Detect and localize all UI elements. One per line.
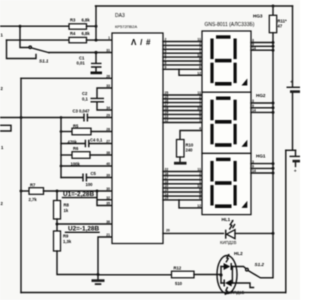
svg-text:240: 240	[186, 148, 194, 153]
svg-text:510: 510	[175, 281, 183, 286]
wire pin31 row	[49, 52, 112, 54]
resistor R7	[21, 183, 112, 203]
capacitor C5	[61, 171, 112, 187]
display HG3	[202, 31, 251, 92]
resistor R9	[54, 224, 99, 275]
svg-text:R8: R8	[64, 203, 70, 208]
wire input top rail left	[0, 25, 69, 27]
wire HG2 common pins	[251, 103, 273, 112]
pin numbers HG3 display side	[197, 38, 201, 76]
node bus2 R5	[60, 130, 63, 133]
wire pin20 row	[163, 232, 224, 234]
node R4 pin1	[95, 39, 98, 42]
svg-text:HG1: HG1	[256, 154, 266, 159]
terminal stub left edge	[0, 125, 11, 131]
op-amp U1 ADC chip DA3	[112, 13, 163, 244]
svg-text:3: 3	[252, 160, 254, 164]
node R3 top	[95, 25, 98, 28]
node HG3 b	[272, 45, 275, 48]
wire pin21 down	[98, 237, 112, 275]
node left bus top	[19, 25, 22, 28]
svg-text:R7: R7	[30, 183, 36, 188]
wire HG3 dp	[179, 69, 202, 75]
svg-text:12: 12	[197, 204, 201, 208]
svg-text:47: 47	[278, 24, 283, 29]
svg-text:HG3: HG3	[253, 14, 263, 19]
seven segment digit HG3	[210, 35, 247, 85]
capacitor C1	[77, 53, 102, 72]
svg-text:1k: 1k	[64, 208, 69, 213]
node HG1 c	[272, 172, 275, 175]
svg-text:30: 30	[106, 187, 110, 191]
seven segment digit HG2	[210, 97, 247, 147]
svg-text:14: 14	[252, 169, 256, 173]
resistor R6	[61, 146, 112, 167]
svg-text:6,8k: 6,8k	[82, 31, 91, 36]
svg-text:5: 5	[199, 61, 201, 65]
wire battery right vertical	[292, 6, 294, 87]
svg-text:38: 38	[106, 151, 110, 155]
capacitor C4	[61, 138, 112, 148]
svg-text:КИПД2В: КИПД2В	[220, 240, 237, 245]
svg-text:6: 6	[199, 196, 201, 200]
wire return left vertical	[285, 150, 287, 292]
wire HL2 top to switch	[232, 267, 245, 269]
svg-text:32: 32	[106, 196, 110, 200]
svg-text:+: +	[290, 79, 293, 85]
svg-text:21: 21	[106, 233, 110, 237]
svg-text:31: 31	[106, 48, 110, 52]
switch S1.1	[29, 46, 49, 63]
node R8 R9	[56, 223, 59, 226]
node HG1 a	[272, 162, 275, 165]
switch S1.2	[246, 262, 265, 278]
svg-text:33: 33	[106, 84, 110, 88]
wire left bus	[20, 78, 22, 292]
svg-text:+: +	[294, 169, 297, 175]
svg-text:6: 6	[199, 66, 201, 70]
svg-text:R6: R6	[73, 146, 79, 151]
seven segment digit HG1	[210, 158, 247, 208]
wire R12 to HL2	[98, 274, 172, 276]
node HG3 c	[272, 49, 275, 52]
svg-text:9: 9	[252, 165, 254, 169]
pin numbers HG3 left	[165, 38, 167, 70]
svg-text:1: 1	[199, 119, 201, 123]
resistor R12	[172, 266, 222, 287]
svg-text:34: 34	[106, 106, 110, 110]
resistor R11	[269, 6, 287, 33]
wire segment bus HG1	[163, 172, 202, 200]
svg-text:R5: R5	[73, 124, 79, 129]
svg-text:9: 9	[252, 104, 254, 108]
display HG2	[202, 92, 251, 153]
resistor R4	[69, 31, 90, 43]
pin numbers HG2 display side	[197, 91, 201, 131]
node R8 top	[56, 190, 59, 193]
node C1 top	[94, 51, 97, 54]
node HG2 b	[272, 106, 275, 109]
battery GB1	[287, 79, 301, 150]
wire segment bus HG3	[163, 42, 202, 70]
resistor R8	[54, 191, 70, 224]
node bus input2	[20, 116, 23, 119]
wire pin26 row	[21, 77, 112, 79]
svg-text:8: 8	[165, 61, 167, 65]
wire S1.1 pole from bus	[20, 26, 29, 47]
svg-text:12: 12	[197, 72, 201, 76]
node bus2 top	[60, 116, 63, 119]
svg-text:27: 27	[106, 139, 110, 143]
node HG2 a	[272, 102, 275, 105]
svg-text:0,1: 0,1	[82, 97, 88, 102]
wire HL2 bottom contact	[232, 283, 253, 288]
wire battery link	[286, 149, 296, 151]
wire pin32 pin35 branch	[97, 191, 112, 206]
svg-text:20: 20	[166, 229, 170, 233]
svg-text:C5: C5	[91, 171, 97, 176]
svg-text:C4 0,1: C4 0,1	[90, 138, 103, 143]
svg-text:12: 12	[165, 119, 169, 123]
svg-text:40: 40	[106, 162, 110, 166]
svg-text:HL2: HL2	[234, 251, 243, 256]
svg-text:R9: R9	[63, 234, 69, 239]
node HG2 c	[272, 111, 275, 114]
wire analog bus	[60, 118, 62, 178]
svg-text:2,7k: 2,7k	[29, 197, 38, 202]
wire R3R4 vertical	[95, 6, 97, 40]
pin numbers HG1 display side	[197, 168, 201, 208]
wire HG1 common pins	[251, 164, 273, 173]
node HL1 bus	[272, 232, 275, 235]
svg-text:35: 35	[106, 202, 110, 206]
svg-text:Λ/#: Λ/#	[131, 38, 151, 47]
wire pin36 U2 row	[57, 223, 112, 225]
svg-text:HG2: HG2	[256, 93, 266, 98]
svg-text:C3 0,047: C3 0,047	[73, 109, 91, 114]
node ground	[97, 273, 100, 276]
pin numbers HG2 left	[165, 91, 169, 123]
resistor R5	[61, 124, 112, 145]
wire V+ top rail	[96, 5, 293, 7]
capacitor C2 loop	[82, 88, 112, 110]
svg-text:26: 26	[106, 75, 110, 79]
wire R4 to pin1	[87, 39, 113, 41]
svg-text:R12: R12	[174, 266, 182, 271]
node bus top	[272, 5, 275, 8]
wire HG1 dp	[179, 200, 202, 208]
pin numbers HG1 left	[165, 168, 169, 200]
svg-text:1,3k: 1,3k	[63, 239, 72, 244]
wire input row 2	[0, 117, 83, 119]
svg-text:1: 1	[108, 36, 110, 40]
svg-text:14: 14	[252, 109, 256, 113]
svg-text:14: 14	[252, 46, 256, 50]
svg-text:36: 36	[106, 220, 110, 224]
node pin32 branch	[96, 190, 99, 193]
LED HL1	[220, 217, 273, 245]
svg-text:39: 39	[106, 173, 110, 177]
wire R3 to node	[87, 25, 97, 27]
node HG1 b	[272, 167, 275, 170]
wire HG3 common pins	[251, 43, 273, 51]
resistor R3	[69, 18, 90, 30]
svg-text:3: 3	[252, 99, 254, 103]
svg-text:GNS-8011 (АЛС333Б): GNS-8011 (АЛС333Б)	[205, 22, 255, 28]
svg-text:100: 100	[86, 182, 94, 187]
LED HL2	[217, 251, 245, 295]
svg-text:15: 15	[165, 196, 169, 200]
svg-text:КР572ПВ2А: КР572ПВ2А	[115, 24, 137, 29]
wire anode bus	[261, 33, 273, 278]
wire R4 row	[7, 39, 70, 41]
svg-text:HL1: HL1	[222, 217, 231, 222]
svg-text:DA3: DA3	[115, 13, 125, 19]
svg-text:28: 28	[106, 127, 110, 131]
svg-text:R4: R4	[70, 31, 76, 36]
node bus R7	[20, 190, 23, 193]
wire S1.1 throw contact	[7, 40, 37, 58]
svg-text:КИПД1Б: КИПД1Б	[228, 290, 245, 295]
ground C1	[91, 72, 103, 75]
node bus2 pin40	[60, 165, 63, 168]
capacitor C3	[73, 109, 113, 122]
svg-text:S1.1: S1.1	[39, 59, 49, 64]
svg-text:C2: C2	[82, 91, 88, 96]
battery GB2	[290, 150, 301, 174]
node HG3 a	[272, 41, 275, 44]
label U2 voltage	[66, 226, 100, 233]
label U1 voltage	[63, 191, 97, 198]
display HG1	[202, 153, 251, 214]
ground R10	[174, 162, 187, 165]
wire segment bus HG2	[163, 95, 202, 123]
svg-text:0,01: 0,01	[77, 61, 86, 66]
svg-text:29: 29	[106, 113, 110, 117]
svg-text:U2=-1,28В: U2=-1,28В	[68, 226, 99, 233]
svg-text:6,8k: 6,8k	[82, 18, 91, 23]
resistor R10	[177, 131, 203, 162]
wire pin40 row	[61, 165, 112, 167]
svg-text:9: 9	[165, 66, 167, 70]
svg-text:R3: R3	[70, 18, 76, 23]
ground symbol	[92, 275, 105, 286]
wire bottom rail	[21, 292, 286, 294]
svg-text:S1.2: S1.2	[255, 262, 265, 267]
